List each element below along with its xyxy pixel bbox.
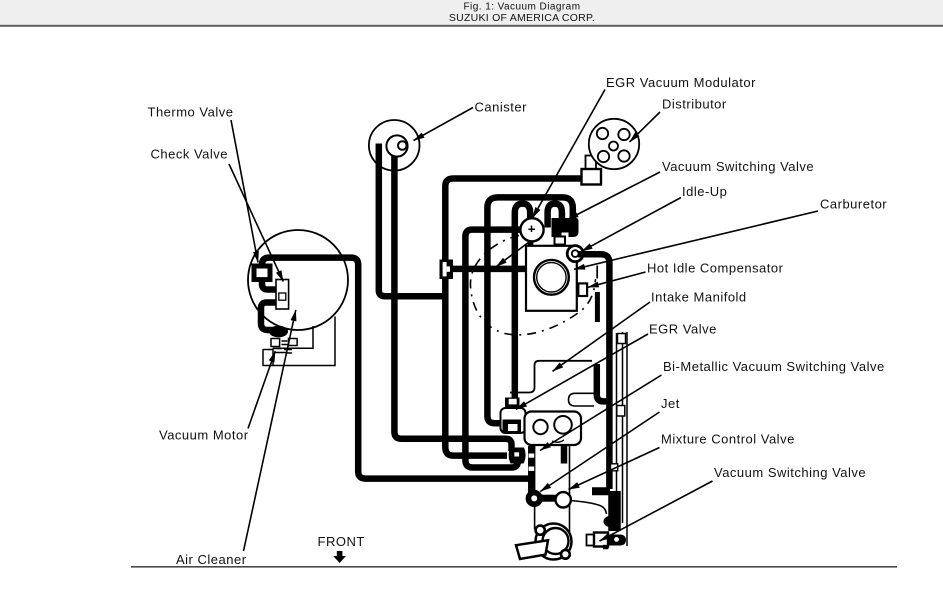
intake manifold top outline — [510, 361, 592, 393]
arrow egr vacuum modulator — [533, 90, 606, 219]
svg-text:Hot Idle Compensator: Hot Idle Compensator — [647, 261, 784, 276]
white notches on jet stub — [529, 454, 535, 471]
mixture control valve circle — [556, 492, 571, 507]
svg-text:Thermo Valve: Thermo Valve — [148, 105, 234, 120]
air cleaner housing step outline — [263, 317, 335, 366]
u-hose 1 (carb port to egr valve top) — [515, 204, 530, 399]
vacuum switching valve on carb (black blob) — [552, 218, 579, 237]
svg-text:Jet: Jet — [661, 396, 680, 411]
canister outer circle — [369, 120, 420, 171]
hose from box to jet — [528, 446, 535, 493]
canister hose right — [394, 146, 511, 451]
arrow egr valve — [516, 334, 648, 409]
intake manifold runner tube — [569, 393, 595, 406]
connector jet to mcv — [540, 495, 556, 502]
egr valve bottom nipple blob — [509, 448, 526, 464]
water hose stub — [516, 540, 548, 559]
bi-metallic vsv inner arc — [552, 440, 564, 442]
svg-text:SUZUKI OF AMERICA CORP.: SUZUKI OF AMERICA CORP. — [449, 12, 595, 24]
arrow air cleaner — [244, 310, 296, 551]
flange ear bolts — [536, 526, 545, 535]
arrow intake manifold — [553, 302, 651, 371]
bottom elbow hose — [592, 487, 610, 495]
bottom elbow vertical — [608, 491, 621, 531]
egr modulator stem — [528, 239, 534, 247]
svg-text:Vacuum Switching Valve: Vacuum Switching Valve — [714, 465, 866, 480]
svg-text:Carburetor: Carburetor — [820, 197, 887, 212]
distributor cap — [589, 119, 639, 169]
rail tick 2 — [617, 406, 625, 417]
arrow vacuum switching valve top — [568, 172, 661, 220]
carburetor body — [526, 246, 577, 311]
egr vacuum modulator circle — [520, 218, 543, 241]
manifold vacuum tap hose — [597, 364, 611, 401]
arrow bi-metallic vsv — [540, 375, 662, 451]
svg-text:Vacuum Switching Valve: Vacuum Switching Valve — [662, 159, 814, 174]
vsv stub fitting below — [555, 237, 566, 245]
arrow distributor short — [630, 112, 661, 142]
engine rail lines — [617, 332, 628, 546]
bottom vacuum switching valve fitting — [587, 533, 627, 550]
vacuum motor fitting squares — [271, 339, 297, 347]
carb linkage lines — [596, 266, 598, 279]
jet (black ring) — [526, 490, 543, 507]
arrow hot idle compensator — [588, 272, 646, 287]
arrow idle-up — [582, 198, 682, 252]
vsv-to-egr hose (outer loop) — [487, 197, 572, 423]
air cleaner boundary dash-dot curve — [470, 236, 595, 335]
arrow mixture control valve — [569, 448, 660, 490]
distributor vacuum hose — [445, 179, 582, 456]
check valve hose upper — [262, 280, 278, 290]
svg-text:Bi-Metallic Vacuum Switching V: Bi-Metallic Vacuum Switching Valve — [663, 359, 885, 374]
svg-text:Idle-Up: Idle-Up — [682, 184, 727, 199]
arrow canister — [414, 108, 474, 141]
bottom elbow blob — [604, 516, 617, 527]
arrow carburetor — [574, 211, 818, 269]
bi-metallic vsv box — [525, 412, 582, 446]
check valve inner notch — [279, 293, 286, 300]
stub from box to mixture control valve — [561, 446, 568, 464]
egr valve port block — [503, 420, 522, 434]
svg-text:Check Valve: Check Valve — [151, 147, 229, 162]
front direction arrow — [333, 551, 346, 563]
canister nipple circle — [398, 141, 407, 150]
arrow jet — [540, 412, 659, 492]
svg-text:Distributor: Distributor — [662, 97, 727, 112]
svg-text:Canister: Canister — [475, 100, 528, 115]
vacuum motor hatch dashes — [273, 341, 293, 353]
thin label arrows — [229, 90, 818, 552]
rail tick 3 — [611, 464, 618, 471]
svg-text:Mixture Control Valve: Mixture Control Valve — [661, 432, 795, 447]
egr valve top cap — [505, 398, 520, 409]
hose tee to carburetor — [450, 266, 525, 273]
rail tick 1 — [618, 334, 626, 344]
distributor fitting stub — [586, 156, 597, 170]
check valve body — [276, 280, 289, 310]
svg-text:EGR Vacuum Modulator: EGR Vacuum Modulator — [606, 75, 756, 90]
arrow vacuum switching valve bottom — [600, 481, 713, 541]
svg-text:Vacuum Motor: Vacuum Motor — [159, 428, 249, 443]
svg-text:Fig. 1: Vacuum Diagram: Fig. 1: Vacuum Diagram — [464, 2, 581, 13]
carburetor bore outer — [534, 260, 569, 295]
arrow thermo valve — [231, 120, 258, 263]
canister hose left — [379, 144, 444, 297]
tee fitting on distributor hose — [440, 260, 454, 280]
vacuum motor hose end blob — [269, 326, 288, 338]
carburetor bore inner — [537, 263, 566, 292]
canister inner circle — [386, 135, 407, 156]
header divider line — [0, 25, 943, 27]
header band — [0, 0, 943, 25]
egr valve body — [501, 408, 526, 433]
bi-metallic vsv right circle — [554, 416, 572, 434]
arrow vacuum motor — [248, 351, 275, 429]
arrow check valve — [229, 164, 283, 282]
u-hose 2 (carb port) — [548, 204, 562, 228]
thermostat housing flange — [536, 524, 572, 560]
short manifold hose right of carb — [595, 292, 600, 322]
svg-text:FRONT: FRONT — [318, 534, 365, 549]
thermo valve fitting — [252, 264, 273, 283]
distributor hose square fitting — [582, 169, 602, 185]
svg-text:EGR Valve: EGR Valve — [649, 322, 717, 337]
svg-text:Intake Manifold: Intake Manifold — [651, 290, 747, 305]
carb to manifold hose right — [578, 254, 609, 489]
thermo valve hose (top hose to center nest and bottom run) — [262, 258, 532, 479]
arrow distributor hose pointer — [496, 241, 531, 267]
idle-up port circle — [567, 246, 583, 262]
air cleaner big circle — [248, 230, 348, 330]
bi-metallic vsv left circle — [533, 420, 547, 434]
svg-text:Air Cleaner: Air Cleaner — [176, 552, 247, 567]
intake manifold body sides — [535, 446, 607, 551]
hot idle compensator square — [578, 283, 587, 296]
bottom baseline — [131, 566, 897, 568]
egr modulator feed hose — [465, 230, 521, 468]
check valve hose lower S — [261, 303, 278, 331]
